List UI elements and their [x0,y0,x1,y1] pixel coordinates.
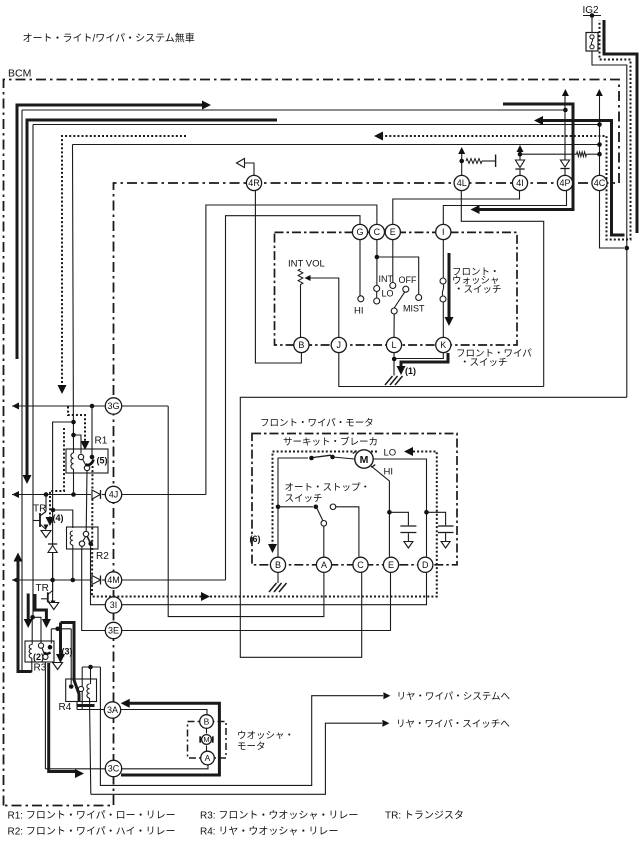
wire rear wiper switch feed [91,723,382,794]
wire 3G row [12,403,19,410]
connector 4C [592,175,607,190]
wire IG2 to fuse [591,16,593,33]
motor connector B [270,557,285,572]
wire BCM output y124.5 to 4C riser [33,124,600,126]
svg-text:I: I [442,227,445,237]
thick route from BCM to washer switch [479,104,573,210]
wire breaker to motor [333,457,355,459]
junction C switch [375,255,380,260]
transistor TR lower [47,592,49,602]
wire rear wiper system feed [100,667,383,785]
continuation triangle TR emitter [41,531,51,538]
wire 3E row from R2 aux to motor E [82,549,391,631]
wire 4L column with resistor [461,154,463,176]
thick route into washer motor [121,699,130,708]
svg-text:M: M [360,454,369,466]
wiper switch moving arm [394,291,405,308]
svg-text:ウオッシャ・: ウオッシャ・ [237,731,294,742]
svg-text:A: A [205,753,211,763]
connector 3I [105,597,121,613]
relay R2 contact [83,531,88,536]
svg-text:M: M [203,735,209,744]
relay R4 coil [87,684,90,698]
junction L ground [392,357,397,362]
wire L to ground [393,353,395,376]
junction D capacitor [424,510,429,515]
washer motor connector A [201,751,215,765]
relay R3 coil [29,645,32,659]
svg-text:LO: LO [384,448,397,459]
connector B switch [294,337,309,352]
svg-text:・スイッチ: ・スイッチ [460,357,508,368]
front wiper motor box [252,434,457,565]
svg-text:サーキット・ブレーカ: サーキット・ブレーカ [283,436,378,448]
motor connector C [353,557,368,572]
relay R1 coil [71,453,74,469]
dotted route main arrow [374,132,383,141]
thick annotation arrow washer switch [448,253,451,317]
svg-text:リヤ・ワイパ・システムへ: リヤ・ワイパ・システムへ [397,692,511,703]
wire 4M row [12,577,19,584]
wire 4C riser [599,96,601,176]
dotted route D1 (auto light signal) [62,136,186,386]
svg-text:リヤ・ワイパ・スイッチへ: リヤ・ワイパ・スイッチへ [396,719,510,730]
wire fuse output to right bus [592,51,627,397]
connector 3C [105,760,121,776]
dotted route D3 into transistor TR [50,428,64,518]
svg-text:TR: トランジスタ: TR: トランジスタ [385,810,464,822]
svg-text:3I: 3I [110,600,118,610]
motor M1 [355,450,373,468]
dotted route D4 wiper motor loop [92,466,201,597]
diode 4M [92,576,101,585]
relay R1 box [66,449,108,473]
svg-text:C: C [374,227,381,237]
junction R2 feed [51,508,56,513]
motor connector A [316,557,331,572]
connector C [369,224,384,239]
contact INT [374,286,380,292]
svg-text:B: B [204,717,210,727]
svg-text:MIST: MIST [403,304,425,314]
svg-text:4J: 4J [109,490,119,500]
connector 4J [105,486,121,502]
wire washer relay feed line [51,628,71,630]
transistor TR lower collector wire [52,553,54,593]
svg-text:(1): (1) [405,366,416,376]
connector G [352,224,367,239]
svg-text:4C: 4C [594,178,606,188]
svg-text:4R: 4R [248,178,260,188]
wire E riser to 4I [393,191,520,225]
relay R2 coil [70,531,73,545]
wire G to HI contact [359,240,361,296]
front wiper switch box [275,232,518,345]
wire 3G riser to motor A line [168,406,324,617]
svg-text:(6): (6) [250,534,261,544]
contact pivot from L [391,308,397,314]
wire C to INT contact [376,240,378,286]
junction 3G to R1 [90,404,95,409]
svg-text:A: A [321,560,327,570]
continuation triangle below R3 [53,663,63,670]
svg-text:・スイッチ: ・スイッチ [454,284,502,295]
wire 3A row to washer motor B [77,710,207,715]
wiper arm of potentiometer [310,278,339,338]
svg-text:3G: 3G [107,401,119,411]
wire branch to TR chain [53,422,74,601]
relay R3 contact [38,643,43,648]
washer switch contact lower [440,296,446,302]
svg-text:オート・ライト/ワイパ・システム無車: オート・ライト/ワイパ・システム無車 [23,32,195,45]
motor connector D [418,557,433,572]
svg-text:R4: リヤ・ウオッシャ・リレー: R4: リヤ・ウオッシャ・リレー [200,826,338,838]
wire to R2 coil [53,510,73,528]
svg-text:R3: R3 [34,663,47,674]
svg-text:モータ: モータ [237,742,266,753]
connector E [385,224,400,239]
wire motor HI brush to E [371,466,390,557]
svg-text:R3: フロント・ウオッシャ・リレー: R3: フロント・ウオッシャ・リレー [200,810,358,822]
relay R2 box [67,527,99,549]
connector I [436,224,451,239]
wire E to OFF contact [392,240,394,283]
transistor TR upper [45,495,47,512]
wire R1 contact output to R2 [85,471,88,532]
svg-text:(4): (4) [53,513,64,523]
connector 4R [246,175,261,190]
wire motor B feed with circuit breaker [278,458,308,557]
wire washer switch to K [442,302,444,338]
wire IG2 terminal bar [583,15,601,17]
svg-text:4I: 4I [516,178,524,188]
wire 4I column with diode [519,169,521,176]
svg-text:R1: フロント・ワイパ・ロー・リレー: R1: フロント・ワイパ・ロー・リレー [8,810,176,822]
connector L switch [386,337,401,352]
capacitor E side [389,512,408,525]
wire BCM output x33 down to TR base and R3 coil [31,125,34,645]
capacitor D side [427,512,446,525]
wire 4P column with diode [564,169,566,176]
svg-text:E: E [390,227,396,237]
svg-text:K: K [440,340,446,350]
contact MIST [416,295,422,301]
wire BCM output y144.5 to 4C riser [73,144,600,146]
thick route K to ground [401,353,448,367]
wire R3 output to 3C [44,662,46,769]
junction E capacitor [387,510,392,515]
svg-text:INT VOL: INT VOL [288,259,325,270]
svg-text:HI: HI [354,306,364,317]
svg-text:オート・ストップ・: オート・ストップ・ [285,483,371,494]
svg-text:R2: フロント・ワイパ・ハイ・リレー: R2: フロント・ワイパ・ハイ・リレー [8,826,176,838]
svg-text:HI: HI [384,467,394,478]
junction IG2 [590,13,595,18]
ground motor B [269,583,277,592]
svg-text:3C: 3C [108,764,120,774]
wire K to L junction [396,353,443,359]
auto stop switch [276,505,281,510]
relay R1 contact [78,454,83,459]
connector J switch [331,337,346,352]
svg-text:(5): (5) [97,456,108,466]
wire B to 4R [255,191,301,364]
fuse F1 [586,33,598,52]
svg-text:4P: 4P [559,178,570,188]
svg-text:(2): (2) [33,652,44,662]
wire 4J row [12,491,19,498]
svg-text:TR: TR [36,583,49,594]
circuit breaker contact [309,456,314,461]
thick drive arrow R3 coil [27,594,30,621]
wire R1 contact feed [74,435,82,454]
junction R1 coil return [71,492,76,497]
connector K switch [436,337,451,352]
junction TR collector [44,492,49,497]
wire BCM thick output arrow y105 [17,105,202,359]
svg-text:R1: R1 [95,436,108,447]
ground (1) [385,376,393,385]
washer motor connector B [200,715,214,729]
wire 4C branch to IG2 bus [600,191,625,249]
wire IG2 bus to motor C [240,397,627,657]
diode 4J [92,490,101,499]
thick route wiper switch feed [534,116,543,125]
wire 4R to arrow out [245,163,254,176]
washer switch contact upper [440,278,446,284]
connector 4P [557,175,572,190]
svg-text:スイッチ: スイッチ [285,494,323,505]
contact OFF [390,283,396,289]
connector 3E [105,622,121,638]
connector 4L [454,175,469,190]
washer motor box [188,722,227,759]
svg-text:フロント・ワイパ・モータ: フロント・ワイパ・モータ [260,418,374,429]
svg-text:R4: R4 [59,702,72,713]
wire G riser to 4M row riser [226,216,361,580]
diode x53 [48,543,57,545]
wire J to 4L riser [339,353,544,387]
svg-text:J: J [337,340,342,350]
svg-text:E: E [388,560,394,570]
thick route return arrow up [14,553,23,562]
relay R4 box [66,679,97,702]
wire 3G to R1 contact [91,406,93,457]
wire 4I resistor line to 4C riser [520,153,577,155]
wire BCM output x22 down to R3 [22,110,32,672]
wire I riser to 4P line [443,191,566,225]
wire R3 coil branch [30,615,35,620]
svg-text:3A: 3A [107,705,118,715]
dotted route main from IG2 loop [377,21,631,240]
svg-text:B: B [275,560,281,570]
svg-text:(3): (3) [62,647,73,657]
motor connector E [383,557,398,572]
wire BCM thick output y120 [27,120,277,476]
connector 3A [104,702,120,718]
svg-text:C: C [357,560,364,570]
connector 4I [512,175,527,190]
relay R3 box [25,641,54,662]
wire motor LO brush to D [373,459,426,557]
junction IG2 bus [625,246,630,251]
svg-text:LO: LO [382,289,394,299]
svg-text:4L: 4L [457,178,467,188]
thick route IG2 feed [604,20,637,233]
svg-text:D: D [422,560,429,570]
thick drive arrow R3 contact [35,594,46,620]
contact LO [374,298,380,304]
svg-text:OFF: OFF [399,275,417,285]
svg-text:G: G [356,227,363,237]
wire C riser to 4J row riser [206,205,377,495]
svg-text:BCM: BCM [8,68,31,80]
contact HI [358,296,364,302]
wire I to washer switch contacts [442,240,444,278]
wire washer motor A to 3C [45,765,208,769]
wire BCM output y110 to 4P riser [22,109,566,111]
svg-text:L: L [391,340,396,350]
svg-text:3E: 3E [108,626,119,636]
dotted route D2 into relay R1 [68,407,85,443]
potentiometer INT VOL [298,269,303,285]
wire R1 coil feed x73 [73,145,74,454]
svg-text:4M: 4M [107,575,120,585]
thick route (3) through R4 [61,623,80,702]
connector 4M [105,572,121,588]
relay R4 contact [69,684,74,689]
svg-text:R2: R2 [96,551,109,562]
wire C to MIST contact [377,257,419,294]
wire 4L to J riser [461,191,543,387]
wire R4 feed [82,666,100,668]
svg-text:B: B [298,340,304,350]
connector 3G [105,398,121,414]
continuation triangle TR lower emitter [49,603,59,610]
washer motor M [202,735,212,745]
wire motor B to ground [277,573,279,584]
wire 3I row from R2 output to motor D [91,549,427,605]
thick route R3 output to 3C [49,663,76,772]
junction R2 coil return [71,578,76,583]
wire R4 contact output to 3A [76,702,78,710]
junction TR2 collector [50,578,55,583]
